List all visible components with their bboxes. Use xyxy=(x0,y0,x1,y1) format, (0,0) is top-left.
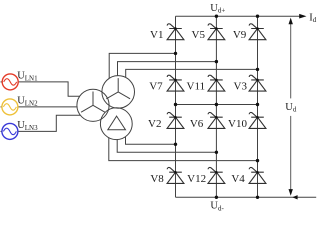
wire ULN2 left lead xyxy=(1,106,2,108)
wire delta-secondary phase c to rail 3 xyxy=(109,138,258,161)
thyristor V3 xyxy=(234,75,266,92)
wire bottom dc rail Ud- xyxy=(176,196,317,198)
wire top dc rail Ud+ xyxy=(176,15,301,17)
thyristor V11 xyxy=(187,75,225,92)
svg-text:V4: V4 xyxy=(231,173,245,185)
AC source ULN1 xyxy=(2,74,18,90)
junction middle rail / rail 3 xyxy=(256,103,259,106)
wire ULN3 left lead xyxy=(1,130,2,132)
wire rail 2 (V5,V11,V6,V12 leg) xyxy=(215,16,217,197)
wire Y-secondary phase b to rail 2 xyxy=(118,62,217,76)
arrow Ud top (up) xyxy=(289,18,293,25)
thyristor V2 xyxy=(148,112,184,129)
wire ULN1 left lead xyxy=(1,81,3,83)
thyristor V7 xyxy=(149,75,184,92)
wire Y-secondary phase a to rail 1 xyxy=(109,53,175,78)
wire delta-secondary phase a to rail 1 xyxy=(126,137,176,145)
svg-text:V8: V8 xyxy=(150,173,164,185)
thyristor V8 xyxy=(150,167,184,184)
AC source ULN2 xyxy=(2,99,18,115)
svg-text:V10: V10 xyxy=(228,118,247,130)
wire ULN2 to transformer primary xyxy=(18,106,77,108)
thyristor V4 xyxy=(231,167,266,184)
transformer secondary star winding (Y) xyxy=(102,76,135,109)
junction bottom rail / rail 2 xyxy=(215,196,218,199)
junction middle rail / rail 2 xyxy=(215,103,218,106)
Ud measuring line lower segment xyxy=(290,116,292,190)
svg-text:V1: V1 xyxy=(150,29,163,41)
thyristor V1 xyxy=(150,24,184,41)
junction delta phase c / rail 3 xyxy=(256,159,259,162)
svg-text:V7: V7 xyxy=(149,81,163,93)
svg-text:V3: V3 xyxy=(234,81,248,93)
thyristor V9 xyxy=(233,24,266,41)
thyristor V10 xyxy=(228,112,266,129)
wire ULN3 to transformer primary xyxy=(18,115,80,131)
thyristor V12 xyxy=(187,167,225,184)
junction Y phase a / rail 1 xyxy=(174,52,177,55)
junction delta phase b / rail 2 xyxy=(215,151,218,154)
junction delta phase a / rail 1 xyxy=(174,143,177,146)
wire Y-secondary phase c to rail 3 xyxy=(126,69,258,77)
junction bottom rail / rail 3 xyxy=(256,196,259,199)
svg-text:V9: V9 xyxy=(233,29,247,41)
svg-text:Ud: Ud xyxy=(285,102,297,114)
svg-text:V2: V2 xyxy=(148,118,161,130)
transformer secondary delta winding xyxy=(100,108,132,140)
svg-text:ULN1: ULN1 xyxy=(17,71,38,83)
svg-text:V5: V5 xyxy=(192,29,206,41)
arrow return current (left, on bottom rail) xyxy=(292,195,297,199)
junction middle rail / rail 1 xyxy=(174,103,177,106)
svg-text:Ud-: Ud- xyxy=(210,201,224,213)
thyristor V5 xyxy=(192,24,225,41)
svg-text:Id: Id xyxy=(309,12,317,24)
wire delta-secondary phase b to rail 2 xyxy=(117,140,216,153)
thyristor V6 xyxy=(190,112,225,129)
svg-text:Ud+: Ud+ xyxy=(210,3,225,15)
wire rail 1 (V1,V7,V2,V8 leg) xyxy=(175,16,177,197)
arrow Id (load current, top right) xyxy=(299,14,306,19)
arrow Ud bottom (down) xyxy=(289,189,293,196)
Ud measuring line upper segment xyxy=(290,24,292,99)
wire middle rail between bridges xyxy=(176,104,258,106)
wire rail 3 (V9,V3,V10,V4 leg) xyxy=(257,16,259,197)
junction top rail / rail 3 xyxy=(256,15,259,18)
svg-text:V12: V12 xyxy=(187,173,206,185)
svg-text:V6: V6 xyxy=(190,118,204,130)
svg-text:V11: V11 xyxy=(187,81,206,93)
transformer primary winding (Y) xyxy=(77,89,109,121)
wire ULN1 to transformer primary xyxy=(18,82,80,96)
svg-text:ULN2: ULN2 xyxy=(17,96,38,108)
AC source ULN3 xyxy=(2,123,18,139)
junction top rail / rail 2 xyxy=(215,15,218,18)
svg-text:ULN3: ULN3 xyxy=(17,120,38,132)
junction Y phase c / rail 3 xyxy=(256,68,259,71)
junction Y phase b / rail 2 xyxy=(215,60,218,63)
